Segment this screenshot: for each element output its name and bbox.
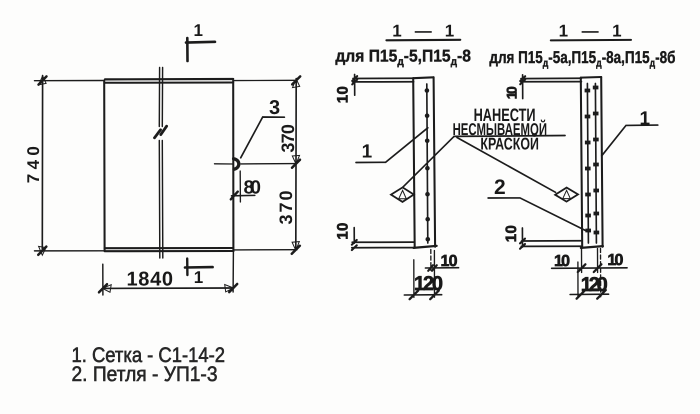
- wall view2 mesh line left with wire bars: [585, 84, 591, 244]
- svg-text:370: 370: [278, 124, 298, 153]
- svg-text:120: 120: [414, 273, 443, 295]
- dimension 740: end ticks and arrowheads: [38, 76, 46, 255]
- svg-text:1 — 1: 1 — 1: [559, 22, 622, 41]
- dimension 370/370: ticks and arrowheads: [292, 76, 300, 253]
- axis break mark: [155, 126, 167, 138]
- svg-text:370: 370: [276, 191, 296, 225]
- svg-text:10: 10: [503, 225, 520, 242]
- svg-text:10: 10: [335, 86, 352, 103]
- callout 3: leader: [241, 117, 285, 158]
- section mark 1 bottom: cut line: [185, 259, 213, 275]
- view1 bottom 10-dim tick: [353, 228, 355, 244]
- view2 dimension 10+10: line and ticks: [552, 264, 628, 272]
- dimension 80: extension line: [239, 171, 241, 202]
- view1 bottom 10-dim mini arrows: [352, 240, 357, 250]
- panel top edge (thick double line): [105, 79, 233, 83]
- svg-text:1: 1: [194, 21, 203, 40]
- svg-text:740: 740: [24, 146, 43, 183]
- header underline left: [386, 39, 460, 42]
- dimension 370/370: extension lines: [215, 80, 298, 250]
- panel right edge: [232, 81, 234, 252]
- panel left edge: [103, 81, 105, 251]
- callout 1 view1: leader: [356, 128, 428, 163]
- note text: Нанести несмываемой краской: [453, 105, 547, 154]
- view2 top 10-dim tick: [522, 75, 524, 99]
- view2 bottom flange lines: [521, 241, 581, 247]
- svg-text:2: 2: [494, 176, 506, 199]
- svg-text:для П15д-5,П15д-8: для П15д-5,П15д-8: [335, 46, 471, 68]
- dimension 740: extension lines: [35, 81, 105, 251]
- view2 top 10-dim mini arrows: [520, 76, 525, 84]
- view1 top 10-dim mini arrows: [352, 76, 357, 84]
- svg-text:120: 120: [581, 274, 608, 296]
- svg-text:2. Петля - УП1-3: 2. Петля - УП1-3: [72, 363, 218, 386]
- svg-text:10: 10: [441, 253, 458, 270]
- note leader to diamond view2: [457, 138, 556, 193]
- dimension 370/370: dimension line: [295, 79, 297, 251]
- note underline: [454, 135, 565, 138]
- view1 top flange lines: [353, 78, 414, 82]
- marking diamond A view2: [555, 188, 578, 202]
- callout 2: leader: [488, 198, 585, 231]
- panel centre axis line (double): [159, 68, 163, 259]
- svg-text:1: 1: [362, 142, 373, 163]
- dimension 80: dimension line: [232, 194, 255, 196]
- svg-text:1: 1: [194, 268, 203, 287]
- leader diamond view1 to note: [403, 136, 454, 187]
- panel bottom edge (thick double line): [105, 248, 234, 251]
- wall section view2: faces: [581, 77, 603, 248]
- view2 dimension 120: line and ticks: [570, 290, 609, 299]
- svg-text:10: 10: [504, 86, 520, 99]
- svg-text:1840: 1840: [127, 268, 174, 290]
- dimension 1840: end ticks and arrowheads: [99, 284, 237, 292]
- wall view2 mesh line right with wire bars: [593, 84, 599, 244]
- svg-text:10: 10: [554, 253, 570, 270]
- svg-text:1: 1: [640, 108, 651, 129]
- view1 dimension 10 (cover): line and ticks: [425, 265, 458, 271]
- header underline right: [551, 39, 631, 42]
- dimension 740: dimension line: [41, 76, 43, 251]
- svg-text:10: 10: [335, 223, 352, 240]
- dimension 1840: dimension line: [103, 287, 233, 289]
- dimension 1840: extension lines: [103, 251, 234, 295]
- marking diamond A view1: [391, 187, 414, 202]
- view2 bottom 10-dim mini arrows: [520, 239, 525, 249]
- wall view1 mesh line with wire dots: [425, 84, 431, 243]
- view1 bottom flange lines: [352, 242, 415, 248]
- wall section view1: faces: [413, 77, 436, 248]
- svg-text:1 — 1: 1 — 1: [392, 21, 454, 40]
- svg-text:3: 3: [269, 97, 280, 119]
- view1 dimension 120: line and ticks: [404, 291, 441, 300]
- view2 top flange lines: [521, 78, 582, 82]
- dimension 80: tick: [231, 192, 238, 200]
- svg-text:80: 80: [244, 177, 262, 198]
- svg-text:для П15д-5а,П15д-8а,П15д-8б: для П15д-5а,П15д-8а,П15д-8б: [489, 48, 675, 70]
- section mark 1 top: cut line: [186, 38, 215, 61]
- view2 extension lines below wall: [578, 249, 601, 298]
- view2 bottom 10-dim tick: [521, 228, 523, 247]
- svg-text:10: 10: [607, 252, 623, 269]
- callout 1 view2: leader: [602, 125, 658, 156]
- lifting loop hook (петля): [234, 159, 239, 170]
- view1 extension lines below wall: [414, 250, 435, 298]
- view1 top 10-dim tick: [354, 74, 356, 95]
